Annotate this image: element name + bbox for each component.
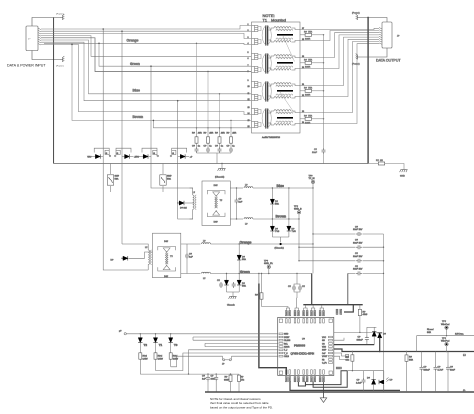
capacitor C mid bridge1 (236, 188, 238, 198)
IC bottom pad pair 5 (319, 377, 321, 382)
IC top pad pair 5 (319, 311, 321, 316)
shield link diagonal 2 (280, 92, 294, 113)
bleed column 1 capacitor (196, 143, 198, 147)
bridge B1 bottom diode pair (207, 213, 225, 217)
svg-text:CALB: CALB (284, 355, 290, 358)
thick pad stub 2 (298, 382, 305, 386)
zener diode (373, 371, 375, 379)
wire secondary U1b (300, 31, 379, 41)
IC pin wire 5 (205, 346, 278, 348)
power stub top-left (60, 14, 64, 20)
wire secondary U3a (300, 37, 379, 85)
wire pair4- (41, 44, 251, 114)
terminal TP blue (311, 180, 314, 183)
wire class T1 return (156, 353, 278, 371)
svg-text:10nF 2kV: 10nF 2kV (353, 242, 363, 244)
bottom return bus (205, 391, 474, 393)
svg-text:49k9: 49k9 (363, 314, 369, 316)
transformer T1 unit 2 secondary coil b (269, 68, 275, 70)
capacitor C mid bridge2 (186, 244, 188, 253)
wire chassis heavy vertical (367, 18, 369, 164)
svg-text:(+): (+) (463, 355, 466, 357)
bleed column 4 capacitor (230, 143, 232, 147)
svg-text:100R: 100R (305, 122, 311, 124)
IC U1 body (278, 317, 334, 375)
IC top pad pair 3 (303, 311, 305, 316)
svg-text:(Power): (Power) (56, 65, 64, 68)
svg-text:(-): (-) (463, 390, 465, 392)
ground arrow below IC (320, 398, 326, 403)
wire secondary U2b (300, 35, 379, 69)
diode VR3 (140, 156, 144, 158)
opto cap branch (363, 371, 365, 379)
svg-text:10nF 2kV: 10nF 2kV (353, 256, 363, 258)
filter cap 1 (207, 373, 208, 374)
branch a below green: cap + diode (226, 274, 228, 281)
thick net bottom-left pad to bus (290, 382, 400, 391)
transformer T1 unit 1 secondary coil a (269, 28, 275, 30)
svg-text:DATA OUTPUT: DATA OUTPUT (376, 59, 401, 63)
test point TP plus (445, 326, 448, 329)
svg-text:R? 75R: R? 75R (304, 88, 312, 90)
IC pin wire 2 (193, 336, 278, 338)
bleed column risers (196, 43, 198, 128)
svg-text:Orange: Orange (240, 240, 252, 244)
output cap 1 (421, 352, 423, 366)
termination network pair 3 resistor (300, 90, 305, 92)
transformer T1 unit 1 primary coil b (252, 38, 255, 40)
svg-text:T2: T2 (144, 343, 148, 347)
svg-text:Orange: Orange (127, 38, 139, 42)
svg-text:100nF: 100nF (357, 339, 364, 341)
shield link diagonal 1 (283, 36, 295, 62)
diode orange-green (239, 243, 240, 244)
svg-text:58A: 58A (275, 203, 279, 206)
svg-text:100R: 100R (305, 38, 311, 40)
svg-text:Green: Green (240, 270, 250, 274)
svg-text:G: G (172, 153, 174, 155)
IC ground stem (323, 382, 325, 398)
thick net to IC right pads (344, 305, 353, 312)
wire brown TVS branch (288, 188, 290, 227)
IC bottom pad pair 4 (311, 377, 313, 382)
svg-text:49R: 49R (209, 133, 213, 135)
svg-text:T_J: T_J (284, 350, 287, 352)
coupling wire 1 (313, 233, 356, 235)
svg-text:R? 75R: R? 75R (304, 116, 312, 118)
diode TVS b (287, 226, 291, 231)
transformer T1 unit 2 secondary coil a (269, 56, 275, 58)
bleed column 1 resistor (196, 128, 198, 137)
bridge B1 center choke (215, 197, 216, 208)
svg-text:GND_Pk: GND_Pk (264, 263, 274, 265)
svg-text:10uF: 10uF (450, 369, 456, 371)
wire termination 1 to chassis rail (312, 34, 324, 36)
wire row 66.2 (99, 43, 251, 66)
transformer T1 unit 4 secondary coil b (269, 123, 275, 125)
wire row 120.4 (72, 44, 251, 120)
vertical tap A (102, 29, 104, 151)
svg-text:1nF: 1nF (239, 201, 243, 203)
power stage box (311, 273, 313, 304)
diode D6 input (121, 258, 122, 259)
svg-text:GND: GND (284, 334, 289, 336)
wire secondary U1a (300, 28, 379, 29)
wire pair1- (41, 30, 251, 32)
termination network pair 1 resistor (300, 34, 305, 36)
transformer T1 unit 3 primary coil a (252, 81, 255, 83)
earth ground right (400, 170, 408, 173)
connector J2 pin hatch (379, 28, 382, 45)
wire brown tap vertical (298, 219, 300, 261)
protection group 1 bracket (94, 148, 109, 152)
svg-text:9: 9 (248, 80, 249, 82)
resistor R 680R (229, 375, 232, 381)
opto LED (379, 380, 384, 384)
thick net diode to plus rail (379, 337, 381, 351)
svg-text:49R: 49R (232, 133, 236, 135)
svg-text:Blue: Blue (133, 89, 140, 93)
junction dots H (298, 233, 384, 274)
svg-text:(Chassis): (Chassis) (275, 248, 285, 250)
svg-text:RCL: RCL (284, 343, 288, 345)
resistor class T0 (170, 343, 172, 353)
svg-text:RLoad: RLoad (427, 329, 434, 331)
wire class T2 return (140, 373, 239, 375)
transformer T1 unit 1 primary coil a (252, 25, 255, 27)
vertical tap C (150, 66, 152, 150)
svg-text:T0: T0 (174, 343, 178, 347)
svg-text:G: G (117, 153, 119, 155)
svg-text:SM?: SM? (167, 176, 172, 178)
coupling wire 3 (299, 260, 356, 262)
bridge B2 bottom diode pair (158, 267, 176, 271)
svg-text:58A: 58A (115, 177, 119, 180)
svg-text:4: 4 (248, 43, 249, 45)
svg-text:Blue: Blue (277, 184, 284, 188)
capacitor at diode pair (366, 327, 368, 336)
output connector J2 body (382, 22, 392, 48)
svg-text:7: 7 (248, 65, 249, 67)
test point TP minus (445, 343, 448, 346)
IC inside right pin column (329, 336, 333, 363)
transformer T1 unit 3 primary coil b (252, 94, 255, 96)
spark gap SG4 (172, 150, 176, 154)
svg-text:R?cl: R?cl (173, 356, 178, 358)
chassis bus horizontal (54, 163, 369, 165)
wire secondary U4a (300, 42, 379, 113)
svg-text:SM?: SM? (115, 176, 120, 178)
svg-text:G: G (153, 153, 155, 155)
svg-text:3: 3 (248, 37, 249, 39)
svg-text:T_C: T_C (284, 353, 288, 355)
wire tap row 43.3 (44, 43, 251, 44)
resistor R 49k9 (359, 305, 361, 310)
svg-text:VDD: VDD (322, 347, 327, 349)
transformer T1 unit 1 core (265, 26, 267, 46)
IC top pad pair 2 (294, 311, 296, 316)
spark gap SG2 (116, 150, 120, 154)
bridge B2 center choke (165, 253, 166, 264)
wire row 127.8 (153, 120, 251, 127)
svg-text:R? 75R: R? 75R (304, 32, 312, 34)
capacitor termination common (322, 148, 326, 154)
wire J2 bottom shield stub (360, 48, 387, 57)
IC corner pads (279, 319, 332, 374)
svg-text:R? 75R: R? 75R (304, 60, 312, 62)
inductor L brown (230, 218, 243, 220)
wire pair3+ (41, 38, 251, 72)
IC bottom pad pair 3 (303, 377, 305, 382)
output plus rail (334, 349, 474, 352)
resistor class T1 (155, 343, 157, 353)
svg-text:GND_B: GND_B (294, 208, 302, 210)
termination network pair 4 resistor (300, 118, 305, 120)
load resistor (406, 351, 407, 352)
svg-text:GND: GND (400, 176, 405, 178)
opto pull-up to rail (351, 352, 353, 355)
wire pair2- (41, 36, 251, 57)
svg-text:S/SP: S/SP (322, 350, 327, 352)
svg-text:ADDR: ADDR (284, 346, 290, 349)
svg-text:1nF: 1nF (202, 378, 206, 380)
svg-text:NOTE:: NOTE: (263, 13, 275, 18)
bridge B2 box (153, 233, 181, 278)
svg-text:G: G (106, 153, 108, 155)
thick return net down (258, 274, 260, 284)
vertical tap B (121, 31, 123, 150)
bleed column 4 resistor (230, 128, 232, 137)
svg-text:4.7uF: 4.7uF (438, 369, 444, 371)
wire pair2+ (41, 33, 251, 38)
svg-text:DT/BT: DT/BT (284, 337, 290, 339)
branch b below green: cap + diode (238, 274, 240, 281)
IC pin wire 4 (205, 342, 278, 344)
svg-text:C_Pk: C_Pk (322, 363, 327, 365)
diode T2 (140, 333, 141, 334)
svg-text:10nF 2kV: 10nF 2kV (353, 269, 363, 271)
svg-text:58A: 58A (242, 258, 246, 261)
svg-text:1nF: 1nF (189, 256, 193, 258)
bleed column 3 resistor (219, 128, 221, 137)
junction net-tie on orange (280, 243, 282, 245)
wire TVS 1 stub (110, 164, 112, 175)
bleed column 2 resistor (207, 128, 209, 137)
svg-text:56R: 56R (427, 332, 431, 334)
coupling wire 4 (green ext) (348, 272, 356, 274)
IC top pad pair 4 (311, 311, 313, 316)
wire class top (126, 333, 277, 335)
IC inside top pin row (286, 319, 325, 323)
caps pair below green (294, 273, 297, 285)
wire tap D down to bridge1 (178, 151, 193, 220)
TVS suppressor S1 (107, 175, 113, 185)
svg-text:2: 2 (248, 30, 249, 32)
IC pin wire 3 (193, 339, 278, 341)
transformer T1 unit 1 secondary coil b (269, 40, 275, 42)
output 12V wire (417, 336, 474, 352)
transformer T1 unit 4 secondary coil a (269, 111, 275, 113)
svg-text:56R: 56R (409, 359, 413, 361)
transformer T1 unit 3 core (265, 82, 267, 102)
diode T1 (155, 333, 156, 334)
svg-text:100R: 100R (305, 94, 311, 96)
svg-text:2.2uF: 2.2uF (356, 382, 362, 384)
svg-text:WirePad: WirePad (441, 339, 450, 342)
wire J1 bottom shield stub (32, 51, 60, 60)
IC pin wire 8 + jumper (232, 355, 278, 357)
svg-text:TVS: TVS (292, 231, 297, 233)
svg-text:(Power): (Power) (352, 12, 360, 15)
TVS suppressor S2 (160, 175, 166, 185)
svg-text:(Power): (Power) (56, 13, 64, 16)
svg-text:DATA & POWER INPUT: DATA & POWER INPUT (7, 64, 46, 68)
connector J1 body (26, 26, 38, 51)
inductor L blue (230, 187, 243, 189)
coupling wire 2 (299, 246, 356, 248)
svg-text:D? SM: D? SM (180, 207, 187, 209)
svg-text:PM8803: PM8803 (294, 344, 306, 348)
diode TVS a (270, 226, 274, 231)
input stub mark (124, 333, 126, 335)
vertical tap D (177, 101, 179, 151)
opto top wire (347, 370, 384, 372)
IC bottom pad pair 2 (294, 377, 296, 382)
transformer T1 box (252, 22, 301, 133)
IC right-bottom outside pad (336, 367, 341, 369)
svg-text:1: 1 (248, 24, 249, 26)
wire pair3- (41, 40, 251, 94)
svg-text:(Chassis): (Chassis) (215, 177, 225, 179)
svg-text:Chassis: Chassis (227, 305, 236, 307)
svg-text:5: 5 (248, 52, 249, 54)
junction dots bridge1 (272, 187, 314, 219)
bleed column 3 capacitor (219, 143, 221, 147)
svg-text:100R: 100R (305, 66, 311, 68)
chassis ground symbol (218, 168, 226, 171)
transformer T1 unit 4 shield bar (277, 117, 293, 119)
svg-text:15: 15 (248, 120, 250, 122)
inductor L orange (181, 243, 201, 245)
wire class T2 riser (189, 350, 278, 374)
svg-text:11: 11 (248, 93, 250, 95)
protection group 3 bracket (142, 148, 157, 152)
svg-text:680R: 680R (224, 379, 230, 381)
transformer pin numbers (248, 24, 305, 128)
svg-text:VOUT: VOUT (322, 356, 328, 358)
diode VR1 (92, 156, 96, 158)
wire termination 4 to chassis rail (312, 118, 324, 120)
svg-text:T1: T1 (159, 343, 163, 347)
svg-text:12: 12 (248, 99, 250, 101)
connector J1 pin hatch (38, 28, 41, 45)
terminal GND peak (267, 265, 270, 268)
IC bottom pad pair 1 (285, 377, 287, 382)
svg-text:TVS: TVS (275, 231, 280, 233)
svg-text:R?cl: R?cl (143, 356, 148, 358)
thick pad stair 1 (305, 371, 347, 385)
wire secondary U2a (300, 33, 379, 58)
transformer T1 unit 2 core (265, 54, 267, 74)
filter cap 2 (216, 373, 217, 374)
transformer T1 unit 2 primary coil b (252, 66, 255, 68)
transformer T1 unit 4 core (265, 109, 267, 129)
wire blue tap vertical (312, 188, 314, 273)
transformer T1 unit 2 shield bar (277, 62, 293, 64)
svg-text:10nF: 10nF (312, 152, 318, 154)
wire input power vertical (53, 18, 55, 164)
svg-text:10: 10 (248, 86, 250, 88)
wire class T0 return (171, 356, 223, 367)
svg-text:10nF 2kV: 10nF 2kV (353, 229, 363, 231)
chassis stub below bus (221, 164, 223, 169)
svg-text:14: 14 (248, 113, 250, 115)
diode VR4 (178, 156, 181, 158)
svg-text:QFN56-EXEX1-45PIN: QFN56-EXEX1-45PIN (291, 353, 315, 356)
wire pair1+ (41, 26, 251, 30)
wire J1 top shield stub (32, 18, 60, 27)
svg-text:based on the output power and: based on the output power and Type of th… (210, 405, 273, 409)
termination network pair 2 resistor (300, 62, 305, 64)
wire termination 3 to chassis rail (312, 90, 324, 92)
power stub top-right (356, 14, 360, 20)
power stub bottom-right (356, 54, 360, 60)
IC top-right outside pads (336, 309, 338, 314)
transformer T1 unit 3 secondary coil b (269, 96, 275, 98)
svg-text:100n: 100n (211, 378, 217, 380)
resistor branch below green (261, 273, 262, 274)
spark gap SG3 (153, 150, 157, 154)
inductor L green (181, 273, 201, 275)
thick pad stair 2 (313, 371, 347, 388)
svg-text:As/Bit TM8200710: As/Bit TM8200710 (262, 136, 281, 139)
wire pair4+ (41, 42, 251, 100)
IC inside left pin column (279, 333, 283, 357)
svg-text:6: 6 (248, 58, 249, 60)
svg-text:49R: 49R (221, 133, 225, 135)
protection group 2 bracket (116, 148, 131, 152)
svg-text:12VOut+: 12VOut+ (455, 333, 464, 336)
wire to earth ground (385, 164, 404, 170)
diode VR2 (122, 156, 125, 158)
svg-text:TP_Bl: TP_Bl (309, 178, 315, 180)
svg-text:100nF: 100nF (424, 369, 431, 371)
wire termination cap to bus (323, 154, 325, 164)
output cap 3 (447, 352, 449, 366)
svg-text:Green: Green (130, 62, 140, 66)
wire secondary U3b (300, 39, 379, 96)
protection group 4 bracket (172, 148, 187, 152)
bridge B1 box (202, 181, 230, 226)
svg-text:VCC: VCC (322, 337, 327, 339)
transformer core rings (262, 26, 271, 45)
bracket to chassis ground (227, 291, 240, 293)
wire termination common vertical (323, 35, 325, 148)
svg-text:(Power): (Power) (352, 63, 360, 66)
wire tap B down to bridge2 (121, 151, 123, 245)
transformer T1 unit 3 shield bar (277, 90, 293, 92)
svg-text:49R: 49R (198, 133, 202, 135)
svg-text:8: 8 (248, 71, 249, 73)
wire TVS 2 stub (162, 164, 164, 175)
resistor R 47k (238, 375, 241, 381)
wire termination 2 to chassis rail (312, 62, 324, 64)
svg-text:58A: 58A (167, 177, 171, 180)
IC inside bottom pin row (286, 370, 325, 374)
wire secondary U4b (300, 44, 379, 124)
transformer T1 unit 4 primary coil b (252, 121, 255, 123)
TVS bracket to chassis (272, 236, 289, 238)
